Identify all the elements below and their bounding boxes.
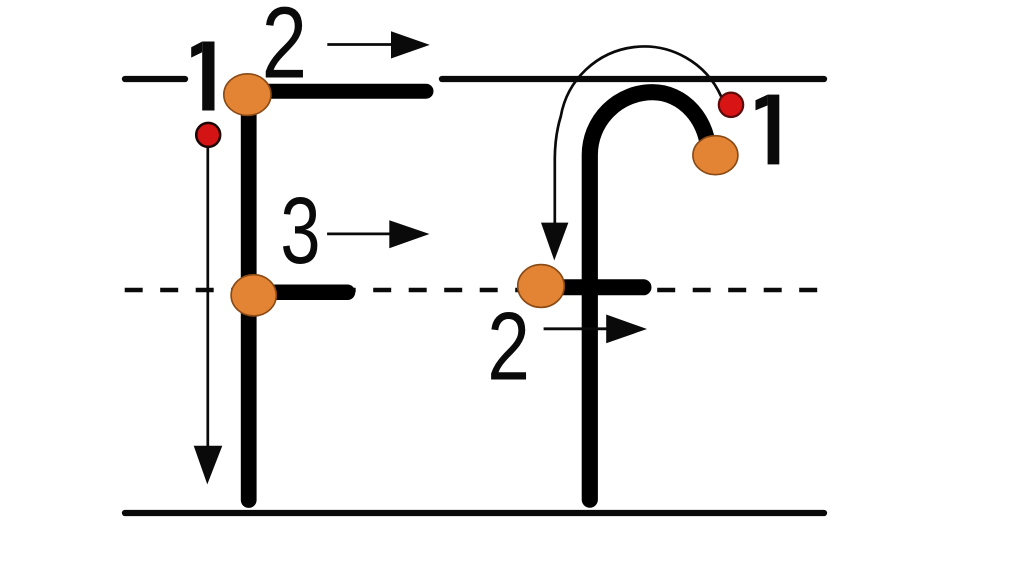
letter F top bar (stroke 2) bbox=[247, 84, 426, 99]
direction arrow for label 2 (F top bar) bbox=[327, 31, 430, 58]
trace arrow for f stroke 1 (thin curve over hook) bbox=[541, 46, 721, 260]
label 1 for F stroke 1 bbox=[191, 42, 214, 111]
orange circle at f crossbar start bbox=[518, 265, 565, 308]
svg-text:2: 2 bbox=[262, 0, 307, 99]
top guide line right segment bbox=[442, 76, 824, 82]
orange circle at f hook end bbox=[693, 136, 738, 175]
direction arrow for label 3 (F middle bar) bbox=[327, 220, 429, 248]
middle dashed guide line bbox=[125, 288, 821, 293]
orange circle at F middle bar start bbox=[231, 275, 276, 316]
letter F stem (stroke 1) bbox=[241, 95, 257, 500]
trace arrow for F stroke 1 (thin vertical) bbox=[194, 147, 223, 484]
bottom guide line bbox=[125, 510, 824, 516]
label 3 for F middle bar bbox=[280, 178, 320, 283]
letter f stem and hook bbox=[590, 92, 709, 499]
direction arrow for label 2 (f crossbar) bbox=[544, 315, 647, 344]
svg-text:2: 2 bbox=[487, 293, 530, 400]
label 2 for F top bar bbox=[262, 0, 307, 99]
letter F middle bar (stroke 3) bbox=[250, 285, 348, 301]
orange start circle at F top bbox=[224, 74, 271, 116]
label 2 for f crossbar bbox=[487, 293, 530, 400]
red start dot for F stroke 1 bbox=[196, 123, 220, 147]
label 1 for f stroke 1 bbox=[756, 95, 780, 165]
svg-text:3: 3 bbox=[280, 178, 320, 283]
letter f crossbar (stroke 2) bbox=[541, 279, 644, 295]
red start dot for f stroke 1 bbox=[719, 93, 743, 117]
top guide line left segment bbox=[125, 76, 185, 82]
